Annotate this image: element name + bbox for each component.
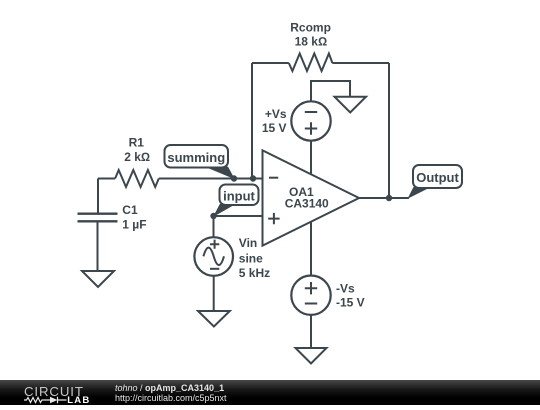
svg-text:-Vs: -Vs: [336, 281, 355, 295]
svg-text:1 µF: 1 µF: [122, 217, 146, 231]
svg-text:CA3140: CA3140: [285, 197, 329, 211]
svg-text:LAB: LAB: [67, 395, 90, 405]
svg-text:18 kΩ: 18 kΩ: [295, 35, 328, 49]
svg-text:R1: R1: [129, 135, 145, 149]
svg-text:15 V: 15 V: [262, 121, 287, 135]
svg-text:5 kHz: 5 kHz: [239, 266, 270, 280]
svg-text:2 kΩ: 2 kΩ: [124, 150, 150, 164]
svg-text:+Vs: +Vs: [265, 107, 287, 121]
svg-text:summing: summing: [167, 150, 225, 165]
svg-text:sine: sine: [239, 251, 263, 265]
svg-text:tohno / opAmp_CA3140_1: tohno / opAmp_CA3140_1: [115, 383, 224, 393]
svg-text:Output: Output: [416, 170, 459, 185]
svg-text:Vin: Vin: [239, 236, 257, 250]
svg-text:input: input: [223, 188, 255, 203]
svg-text:Rcomp: Rcomp: [290, 20, 331, 34]
svg-text:-15 V: -15 V: [336, 295, 365, 309]
svg-text:C1: C1: [122, 203, 138, 217]
svg-text:http://circuitlab.com/c5p5nxt: http://circuitlab.com/c5p5nxt: [115, 393, 227, 403]
